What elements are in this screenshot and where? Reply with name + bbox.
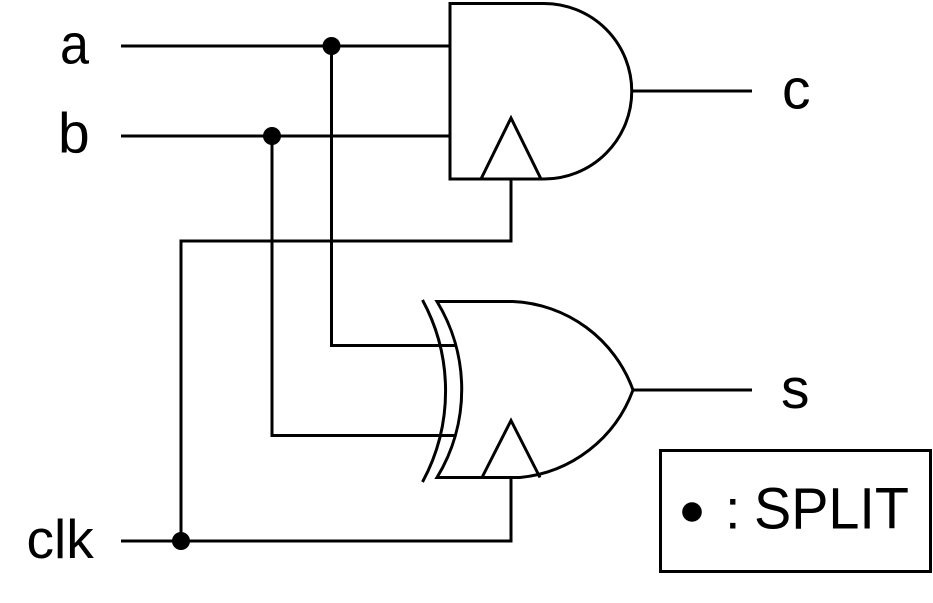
svg-text:a: a [60, 13, 89, 77]
svg-text::: : [725, 478, 741, 541]
svg-text:SPLIT: SPLIT [754, 477, 909, 542]
svg-text:b: b [58, 102, 90, 166]
svg-text:clk: clk [27, 508, 95, 570]
svg-text:s: s [781, 357, 810, 421]
svg-text:c: c [782, 58, 811, 122]
